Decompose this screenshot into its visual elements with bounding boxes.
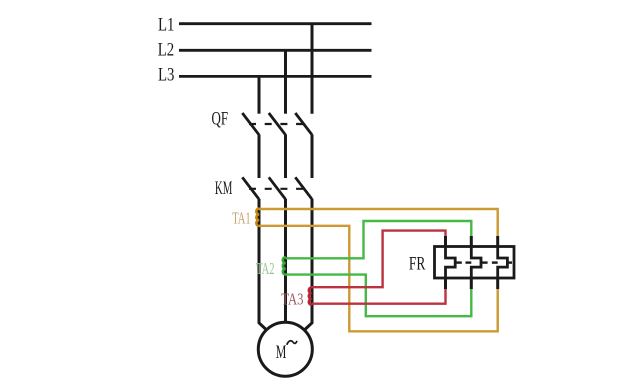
svg-text:L3: L3 xyxy=(158,64,174,85)
svg-text:M: M xyxy=(276,342,287,362)
svg-text:TA3: TA3 xyxy=(281,291,303,309)
svg-text:TA2: TA2 xyxy=(256,260,275,278)
svg-text:FR: FR xyxy=(409,252,426,274)
svg-text:KM: KM xyxy=(215,178,233,199)
svg-text:QF: QF xyxy=(212,108,229,129)
svg-text:L2: L2 xyxy=(158,39,174,60)
svg-text:TA1: TA1 xyxy=(232,209,251,227)
svg-text:L1: L1 xyxy=(158,14,174,35)
